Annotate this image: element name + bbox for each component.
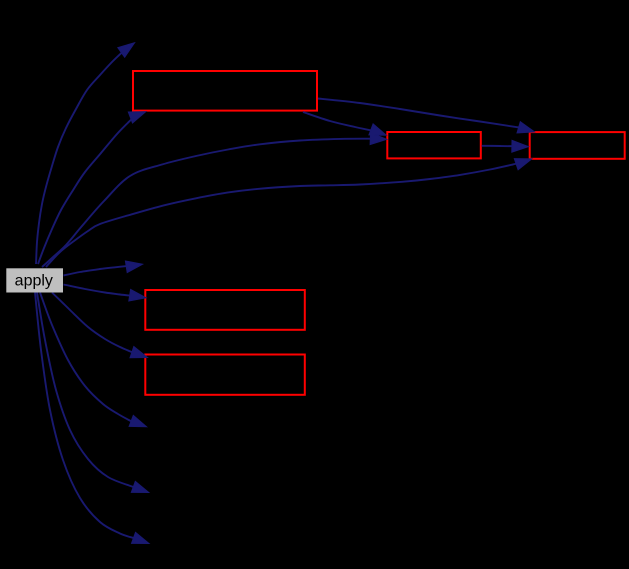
node apply	[6, 268, 63, 292]
node6 box	[145, 355, 304, 395]
node4 box	[530, 132, 625, 159]
svg-text:apply: apply	[15, 273, 53, 290]
node5 box	[145, 290, 304, 330]
edge apply->node10	[36, 43, 135, 264]
edge apply->node14	[35, 293, 149, 544]
node3 box	[387, 132, 481, 158]
edge node2->node4	[318, 99, 535, 134]
edge apply->node2	[38, 112, 146, 264]
edge node3->node4	[482, 140, 529, 152]
edge node2->node3	[303, 112, 386, 135]
edge apply->node3	[42, 133, 387, 267]
edge apply->node5	[64, 285, 147, 302]
edge apply->node6	[52, 293, 148, 358]
node2 box	[133, 71, 317, 111]
edge apply->node11	[64, 261, 143, 276]
edge apply->node12	[40, 293, 147, 427]
edge apply->node4	[46, 159, 532, 267]
edge apply->node13	[37, 293, 149, 493]
